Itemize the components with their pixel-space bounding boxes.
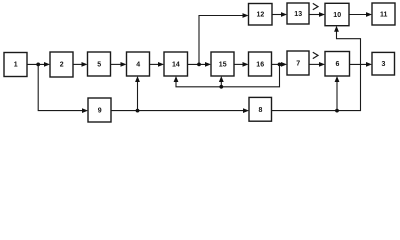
svg-text:16: 16 — [256, 62, 264, 69]
svg-text:15: 15 — [219, 62, 227, 69]
svg-text:13: 13 — [294, 11, 302, 18]
svg-text:5: 5 — [97, 62, 101, 69]
svg-text:1: 1 — [14, 62, 18, 69]
svg-text:10: 10 — [333, 12, 341, 19]
svg-text:2: 2 — [60, 62, 64, 69]
svg-text:4: 4 — [136, 62, 140, 69]
svg-text:7: 7 — [296, 61, 300, 68]
svg-text:8: 8 — [258, 107, 262, 114]
svg-text:9: 9 — [98, 108, 102, 115]
svg-text:6: 6 — [335, 61, 339, 68]
svg-text:3: 3 — [381, 61, 385, 68]
svg-text:12: 12 — [257, 12, 265, 19]
svg-text:11: 11 — [380, 12, 388, 19]
svg-text:14: 14 — [172, 62, 180, 69]
